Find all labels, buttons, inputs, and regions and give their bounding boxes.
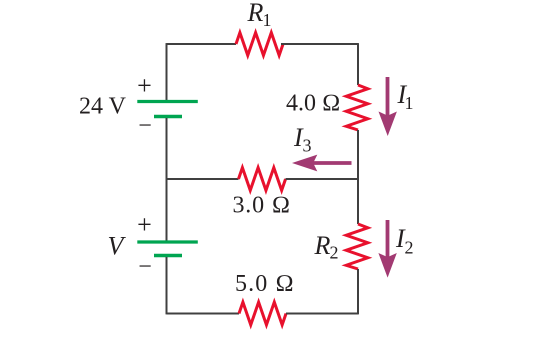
- svg-text:R: R: [247, 0, 264, 27]
- svg-text:+: +: [137, 71, 152, 100]
- svg-text:4.0 Ω: 4.0 Ω: [286, 91, 340, 117]
- svg-text:3.0 Ω: 3.0 Ω: [233, 193, 291, 219]
- svg-text:−: −: [138, 254, 152, 280]
- resistor R1: [236, 33, 283, 56]
- resistor 4.0 ohm: [346, 85, 368, 130]
- svg-text:1: 1: [263, 10, 272, 30]
- wire left upper: [166, 43, 168, 100]
- current arrow I2: [386, 220, 390, 258]
- wire middle right segment: [286, 178, 359, 180]
- battery 24V minus plate: [154, 115, 182, 119]
- wire bottom right segment: [286, 313, 358, 315]
- battery 24V plus plate: [137, 100, 198, 103]
- svg-text:2: 2: [330, 243, 339, 263]
- svg-text:24 V: 24 V: [79, 94, 127, 120]
- wire left lower: [166, 257, 168, 314]
- svg-text:1: 1: [405, 93, 414, 113]
- wire middle left segment: [167, 178, 239, 180]
- resistor 5.0 ohm: [239, 302, 286, 325]
- wire right upper: [357, 43, 359, 85]
- svg-text:V: V: [108, 232, 127, 261]
- battery V plus plate: [137, 240, 198, 243]
- svg-text:2: 2: [405, 237, 414, 257]
- battery V minus plate: [154, 254, 182, 258]
- svg-text:−: −: [138, 113, 152, 139]
- wire left between batteries: [166, 118, 168, 241]
- svg-text:+: +: [137, 210, 152, 239]
- resistor R2: [346, 224, 368, 269]
- current arrow I3: [312, 161, 352, 165]
- wire top-right segment: [281, 43, 358, 45]
- current arrow I1: [386, 77, 390, 118]
- wire top-left segment: [167, 43, 237, 45]
- wire right lower: [357, 269, 359, 314]
- svg-text:3: 3: [303, 136, 312, 156]
- wire bottom left segment: [167, 313, 240, 315]
- wire right middle: [357, 130, 359, 224]
- resistor 3.0 ohm: [239, 168, 286, 191]
- svg-text:5.0 Ω: 5.0 Ω: [235, 271, 295, 297]
- svg-text:R: R: [314, 231, 331, 260]
